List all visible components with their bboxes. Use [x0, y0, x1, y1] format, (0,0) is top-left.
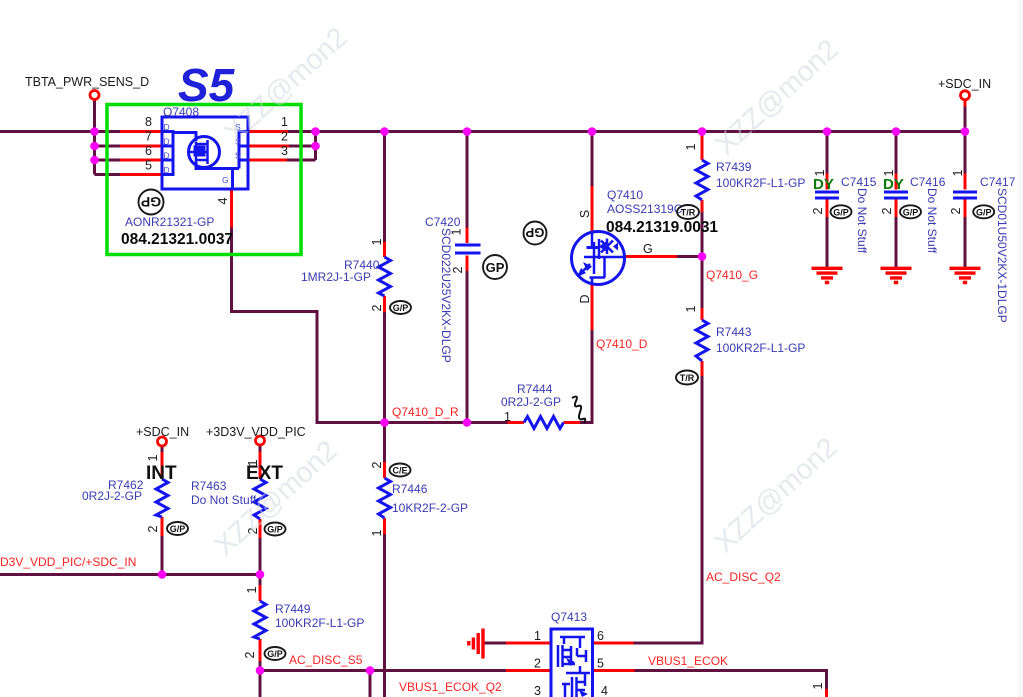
logo oval at R7446 pin2 [390, 464, 411, 477]
ground symbol under C7417 [950, 268, 981, 282]
capacitor C7417 plates [953, 192, 977, 198]
wire Q7410 gate stub [625, 255, 678, 258]
ground symbol under C7415 [812, 268, 843, 282]
svg-text:1: 1 [951, 169, 965, 176]
svg-text:Q7410_D: Q7410_D [596, 337, 648, 351]
wire gate of Q7410 to node Q7410_G [677, 255, 702, 258]
svg-text:1: 1 [504, 410, 511, 424]
svg-text:Do Not Stuff: Do Not Stuff [855, 188, 869, 254]
svg-text:+SDC_IN: +SDC_IN [938, 77, 991, 91]
svg-text:4: 4 [601, 684, 608, 697]
svg-text:INT: INT [146, 463, 177, 484]
logo oval at R7439 pin2 [677, 205, 699, 219]
svg-text:VBUS1_ECOK_Q2: VBUS1_ECOK_Q2 [399, 680, 502, 694]
logo circle GP upright (near C7420) [483, 255, 507, 279]
svg-text:Q7413: Q7413 [551, 610, 587, 624]
svg-text:Q7408: Q7408 [163, 105, 199, 119]
svg-text:2: 2 [534, 657, 541, 671]
svg-text:G/P: G/P [267, 525, 283, 535]
svg-text:C/E: C/E [392, 466, 407, 476]
wire R7440 column upper [383, 132, 386, 243]
svg-text:1: 1 [813, 169, 827, 176]
svg-text:G/P: G/P [267, 649, 283, 659]
chassis ground at Q7413 pin1 (rotated left) [469, 629, 483, 659]
svg-text:R7443: R7443 [716, 325, 752, 339]
svg-text:AOSS21319C: AOSS21319C [607, 202, 683, 216]
svg-text:100KR2F-L1-GP: 100KR2F-L1-GP [716, 341, 805, 355]
wire R7440 pin stubs [383, 242, 386, 312]
svg-text:C7415: C7415 [841, 175, 877, 189]
svg-text:+3D3V_VDD_PIC: +3D3V_VDD_PIC [206, 425, 306, 439]
wire R7463 column from +3D3V_VDD_PIC terminal [259, 445, 262, 575]
wire C7415 pin stubs [826, 174, 829, 218]
wire Q7410 drain stub [591, 285, 594, 331]
wire Q7408 left pin stubs 8,7,6,5 [120, 132, 162, 175]
wire net D3V_VDD_PIC/+SDC_IN [0, 573, 260, 576]
svg-text:VBUS1_ECOK: VBUS1_ECOK [648, 654, 728, 668]
svg-text:1: 1 [370, 529, 384, 536]
transistor Q7410 body diode cluster [601, 239, 613, 255]
svg-text:100KR2F-L1-GP: 100KR2F-L1-GP [275, 616, 364, 630]
svg-text:AC_DISC_S5: AC_DISC_S5 [289, 653, 363, 667]
wire R7440 column lower to node Q7410_D_R [383, 312, 386, 423]
svg-text:S: S [235, 151, 241, 161]
wire R7446 pin stubs [383, 462, 386, 534]
wire net AC_DISC_S5 horizontal [260, 669, 506, 672]
svg-text:GP: GP [141, 194, 161, 210]
svg-text:+SDC_IN: +SDC_IN [136, 425, 189, 439]
svg-text:084.21319.0031: 084.21319.0031 [606, 219, 718, 236]
svg-text:2: 2 [146, 525, 160, 532]
svg-text:G/P: G/P [170, 524, 186, 534]
svg-text:AONR21321-GP: AONR21321-GP [125, 215, 214, 229]
logo oval at R7440 pin2 [390, 301, 411, 314]
svg-text:G: G [643, 242, 653, 256]
svg-text:D: D [164, 122, 170, 132]
svg-text:R7463: R7463 [191, 479, 227, 493]
svg-text:1: 1 [684, 143, 698, 150]
wire TBTA terminal drop with taps to pins 7,6,5 [95, 99, 121, 175]
wire node Q7410_D_R from Q7408 pin4 to R7444 [232, 228, 508, 423]
wire Q7410 drain to R7444 node Q7410_D [580, 330, 592, 423]
green highlight box around Q7408 [107, 105, 301, 255]
node +3D3V_VDD_PIC terminal [256, 436, 265, 445]
wire Q7413 pin stubs right [593, 643, 635, 671]
logo circle GP rotated (near C7420 top) [524, 222, 547, 245]
wire R7443 bottom, net AC_DISC_Q2 down to Q7413 pin6 [634, 376, 703, 643]
wire Q7410 source stub [591, 186, 594, 232]
svg-text:2: 2 [281, 130, 288, 144]
node +SDC_IN terminal top right [961, 91, 970, 100]
svg-text:R7444: R7444 [517, 382, 553, 396]
svg-text:AC_DISC_Q2: AC_DISC_Q2 [706, 570, 781, 584]
svg-text:G/P: G/P [833, 207, 849, 217]
svg-text:DY: DY [813, 176, 834, 193]
svg-text:6: 6 [597, 629, 604, 643]
wire C7420 pin stubs [466, 228, 469, 272]
transistor Q7408 mosfet internals [190, 140, 208, 164]
wire +SDC_IN drop / C7417 column [964, 106, 967, 268]
svg-text:Q7410_G: Q7410_G [706, 268, 758, 282]
wire R7443 pin stubs [701, 308, 704, 376]
svg-text:1: 1 [450, 228, 464, 235]
svg-text:6: 6 [145, 144, 152, 158]
wire R7462 column from +SDC_IN terminal [161, 446, 164, 575]
svg-text:1: 1 [245, 586, 259, 593]
wire R7446 chain on net VBUS1_ECOK_Q2 [383, 423, 386, 697]
transistor Q7413 internal lower device [562, 666, 590, 697]
svg-text:2: 2 [949, 207, 963, 214]
wire R7444 pin stubs [508, 421, 581, 424]
wire C7415 column [826, 132, 829, 268]
svg-text:D: D [164, 165, 170, 175]
capacitor C7420 plates [455, 245, 481, 253]
wire Q7408 pin 4 stub [230, 189, 233, 228]
wire node Q7410_G to R7443 top [701, 257, 704, 309]
svg-text:S: S [578, 210, 592, 218]
svg-text:2: 2 [811, 207, 825, 214]
logo scrawl at R7444 pin2 [572, 397, 585, 423]
svg-text:T/R: T/R [681, 208, 696, 218]
wire net VBUS1_ECOK from Q7413 pin5 [635, 671, 827, 690]
wire main bus left segment net TBTA_PWR_SENS_D [0, 130, 120, 133]
svg-text:G/P: G/P [393, 303, 409, 313]
svg-text:C7417: C7417 [980, 175, 1016, 189]
transistor Q7410 mosfet internals [584, 232, 625, 286]
svg-text:1: 1 [882, 169, 896, 176]
svg-text:5: 5 [597, 657, 604, 671]
svg-text:D: D [164, 137, 170, 147]
logo oval at R7449 pin2 [265, 647, 286, 660]
transistor Q7413 internal upper device [558, 637, 586, 667]
svg-text:SCD01U50V2KX-1DLGP: SCD01U50V2KX-1DLGP [995, 188, 1009, 323]
svg-text:1: 1 [146, 454, 160, 461]
node TBTA_PWR_SENS_D terminal [90, 91, 99, 100]
transistor Q7408 body outline [162, 117, 248, 189]
svg-text:1: 1 [281, 115, 288, 129]
svg-text:T/R: T/R [680, 373, 695, 383]
svg-text:G: G [222, 175, 229, 185]
node +SDC_IN terminal lower left [158, 437, 167, 446]
svg-text:C7420: C7420 [425, 215, 461, 229]
svg-text:Do Not Stuff: Do Not Stuff [925, 188, 939, 254]
node junction dots on bus and nets [90, 127, 969, 675]
wire Q7408 right pin stubs 1,2,3 [247, 132, 289, 161]
svg-text:10KR2F-2-GP: 10KR2F-2-GP [392, 501, 468, 515]
wire Q7413 pin1 to chassis ground [484, 642, 506, 645]
svg-text:Q7410: Q7410 [607, 188, 643, 202]
logo oval at R7462 pin2 [167, 522, 188, 535]
capacitor C7416 plates [884, 192, 908, 198]
svg-text:5: 5 [145, 159, 152, 173]
logo oval at R7443 pin2 [676, 371, 698, 385]
svg-text:G/P: G/P [976, 207, 992, 217]
resistor R7440 [379, 257, 391, 296]
transistor Q7408 internal source bus [239, 130, 247, 169]
wire R7463 pin stubs [259, 452, 262, 539]
svg-text:C7416: C7416 [910, 175, 946, 189]
svg-text:1: 1 [684, 305, 698, 312]
svg-text:2: 2 [243, 651, 257, 658]
svg-text:D: D [578, 294, 592, 303]
wire Q7413 pin stubs left [506, 643, 551, 671]
transistor Q7408 internal bottom link and gate lead [196, 162, 239, 189]
wire C7420 column upper [466, 132, 469, 228]
svg-text:1: 1 [246, 459, 260, 466]
svg-text:D3V_VDD_PIC/+SDC_IN: D3V_VDD_PIC/+SDC_IN [0, 555, 136, 569]
svg-text:GP: GP [525, 225, 544, 240]
wire drop at x=370 to bottom edge [369, 671, 372, 697]
svg-text:084.21321.0037: 084.21321.0037 [121, 231, 233, 248]
resistor R7463 [254, 479, 266, 519]
svg-text:2: 2 [880, 207, 894, 214]
svg-text:Q7410_D_R: Q7410_D_R [392, 405, 459, 419]
wire R7449 column [259, 575, 262, 697]
svg-text:1: 1 [534, 629, 541, 643]
capacitor C7415 plates [815, 192, 839, 198]
svg-text:0R2J-2-GP: 0R2J-2-GP [82, 489, 142, 503]
transistor Q7413 body outline [551, 629, 593, 697]
svg-text:DY: DY [883, 176, 904, 193]
svg-text:7: 7 [145, 130, 152, 144]
svg-text:TBTA_PWR_SENS_D: TBTA_PWR_SENS_D [25, 75, 149, 89]
svg-text:100KR2F-L1-GP: 100KR2F-L1-GP [716, 176, 805, 190]
wire C7416 column [895, 132, 898, 268]
resistor R7443 [696, 320, 708, 361]
svg-text:1: 1 [811, 682, 825, 689]
wire R7439 pin stubs [701, 134, 704, 212]
wire R7439 bottom to node Q7410_G [701, 212, 704, 257]
wire main bus right segment [288, 130, 965, 133]
resistor R7439 [696, 160, 708, 200]
svg-text:8: 8 [145, 115, 152, 129]
svg-text:0R2J-2-GP: 0R2J-2-GP [501, 395, 561, 409]
transistor Q7408 internal drain bus [164, 130, 174, 176]
resistor R7449 [254, 601, 266, 639]
wire C7416 pin stubs [895, 174, 898, 218]
wire C7417 pin stubs [964, 100, 967, 218]
logo oval at C7416 pin2 [900, 205, 921, 218]
svg-text:GP: GP [486, 260, 505, 275]
transistor Q7410 mosfet circle [572, 232, 625, 285]
wire Q7410 source column [591, 132, 594, 187]
svg-text:R7446: R7446 [392, 482, 428, 496]
svg-text:3: 3 [534, 684, 541, 697]
resistor R7462 [156, 479, 168, 517]
transistor Q7408 internal top link [173, 133, 196, 142]
resistor R7446 [379, 478, 391, 518]
wire C7420 column lower [466, 271, 469, 423]
svg-text:D: D [164, 151, 170, 161]
resistor R7444 horizontal [524, 417, 564, 429]
svg-text:1MR2J-1-GP: 1MR2J-1-GP [301, 270, 371, 284]
svg-text:SCD022U25V2KX-DLGP: SCD022U25V2KX-DLGP [439, 228, 453, 363]
svg-text:R7449: R7449 [275, 602, 311, 616]
svg-text:G/P: G/P [903, 207, 919, 217]
svg-text:2: 2 [451, 266, 465, 273]
logo oval at C7415 pin2 [831, 205, 852, 218]
wire R7462 pin stubs [161, 452, 164, 536]
svg-text:S5: S5 [178, 59, 236, 111]
svg-text:3: 3 [281, 144, 288, 158]
svg-text:2: 2 [370, 304, 384, 311]
logo circle GP rotated (inside green box) [139, 190, 164, 215]
logo oval at C7417 pin2 [973, 205, 994, 218]
ground symbol under C7416 [881, 268, 912, 282]
svg-text:2: 2 [370, 461, 384, 468]
wire right-side tie of pins 1,2,3 [287, 130, 316, 160]
svg-text:R7439: R7439 [716, 160, 752, 174]
logo oval at R7463 pin2 [265, 523, 286, 536]
svg-text:4: 4 [216, 197, 230, 204]
wire R7449 pin stubs [259, 585, 262, 661]
svg-text:1: 1 [370, 238, 384, 245]
transistor Q7408 mosfet circle [189, 137, 220, 168]
wire bottom right pin1 stub [825, 689, 828, 697]
transistor Q7410 source arrow [578, 264, 590, 276]
